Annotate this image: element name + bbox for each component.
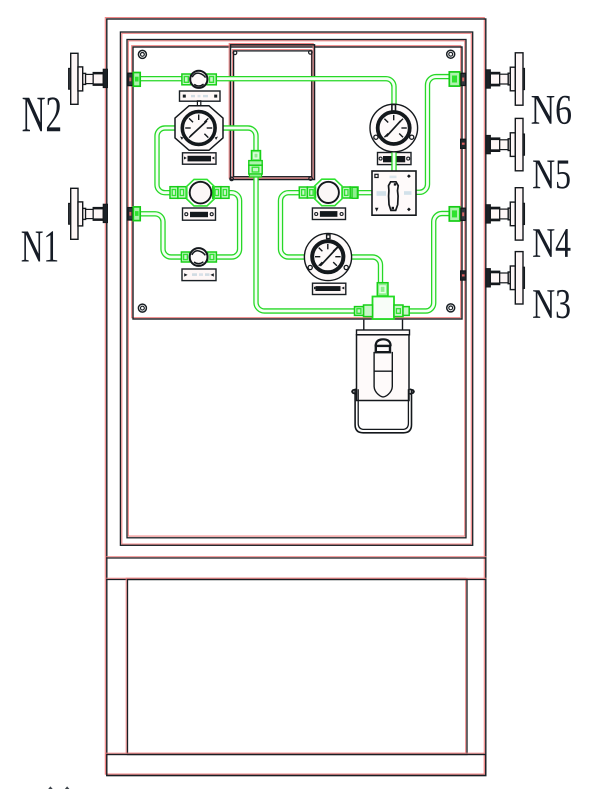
right hook xyxy=(410,389,414,394)
bottom band xyxy=(106,753,486,775)
cut-off text fragment at bottom edge xyxy=(48,786,69,789)
bottom bracket outer xyxy=(355,389,411,433)
label N3 xyxy=(533,290,570,318)
lower section inner rectangle xyxy=(126,578,467,754)
wire tubing switch box S1 to valve V4 xyxy=(356,190,373,195)
fitting pair valve V2 right xyxy=(213,187,229,199)
label plate of gauge G2 (black tag) xyxy=(313,283,346,294)
label plate of valve V4 (black tag) xyxy=(312,208,345,220)
gauge G2 xyxy=(304,233,351,280)
tee T1 body xyxy=(355,297,410,320)
wire tubing nozzle N1 to valve V3 xyxy=(140,214,183,257)
label plate of regulator R1 (black tag) xyxy=(183,153,217,164)
label N5 xyxy=(533,161,570,189)
wire tubing tee T1 to nozzle N4 xyxy=(407,214,452,312)
wall fitting nozzle N6 xyxy=(449,72,465,86)
wall fitting nozzle N1 xyxy=(128,207,140,221)
flange nozzle N4 xyxy=(486,188,525,240)
door inner frame xyxy=(127,40,466,538)
label plate of gauge G1 (black tag) xyxy=(378,153,412,165)
door outer frame xyxy=(120,32,472,545)
fitting union U1 on vertical run xyxy=(249,151,262,177)
gauge G1 xyxy=(370,104,418,152)
panel screw top-right xyxy=(447,50,455,58)
valve V2 (big round valve) xyxy=(187,179,214,206)
fitting valve V1 right xyxy=(207,74,216,85)
wire tubing valve V2 to regulator R1 xyxy=(157,128,180,193)
wall fitting nozzle N2 xyxy=(128,73,140,87)
flange nozzle N1 xyxy=(69,188,108,239)
panel screw top-left xyxy=(138,50,146,58)
wire tubing switch box S1 to nozzle N6 xyxy=(415,77,451,193)
label plate of valve V3 xyxy=(182,269,216,281)
wire tubing gauge G2 to tee T1 xyxy=(350,257,381,286)
document holder big rectangle xyxy=(229,44,314,180)
valve V3 (lower small valve) xyxy=(190,248,208,266)
label N1 xyxy=(22,231,58,261)
wire tubing valve V3 to valve V2 (right U-bend) xyxy=(215,193,240,257)
fitting pair valve V2 left xyxy=(170,187,186,199)
valve V1 (top small valve) xyxy=(190,71,207,88)
panel plate xyxy=(132,46,462,319)
fitting valve V3 right xyxy=(208,252,217,262)
fitting valve V3 left xyxy=(181,252,189,262)
regulator R1 (octagon gauge) xyxy=(175,101,223,151)
sample bottle cap rect xyxy=(376,346,390,352)
fitting pair valve V4 right xyxy=(342,187,358,198)
cylinder neck xyxy=(363,320,365,330)
sample bottle dome cap xyxy=(376,339,391,346)
wire tubing gauge G1 to switch box S1 xyxy=(391,148,396,172)
wire tubing regulator R1 down to tee T1 (long run) xyxy=(218,128,366,311)
fitting valve V1 left xyxy=(182,74,191,85)
panel screw bottom-left xyxy=(138,304,146,312)
flange nozzle N2 xyxy=(69,53,108,104)
big rectangle corner screw top-left xyxy=(233,51,237,55)
wall fitting nozzle N4 xyxy=(449,207,465,221)
flange nozzle N6 xyxy=(486,53,525,105)
left hook xyxy=(352,389,356,394)
fitting above tee T1 xyxy=(377,283,388,296)
label plate of valve V1 xyxy=(180,91,221,101)
switch box S1 (keyhole plate) xyxy=(372,171,416,215)
fitting at switch box S1 left xyxy=(352,187,357,198)
cylinder housing body xyxy=(357,335,410,401)
label N2 xyxy=(23,97,61,131)
wall plug nozzle N3 xyxy=(461,271,466,280)
flange nozzle N5 xyxy=(486,118,525,170)
valve V4 (big round valve right) xyxy=(315,179,342,206)
wall plug nozzle N5 xyxy=(461,139,466,148)
panel screw bottom-right xyxy=(447,304,455,312)
label N4 xyxy=(533,229,570,257)
wire tubing N2 to valve V1 to gauge G1 (top run) xyxy=(140,79,394,112)
middle band line lower xyxy=(107,578,486,579)
sample cylinder assembly below panel xyxy=(351,320,414,433)
big rectangle corner screw top-right xyxy=(309,51,313,55)
cabinet outer frame xyxy=(105,18,486,776)
big rectangle corner screw bottom-left xyxy=(230,177,234,181)
bottom bracket inner xyxy=(358,389,408,429)
wire tubing valve V4 to gauge G2 (left U-bend) xyxy=(281,193,306,257)
middle band line upper xyxy=(107,557,486,558)
fitting pair valve V4 left xyxy=(299,187,315,198)
sample bottle body xyxy=(374,352,392,397)
cylinder top plate xyxy=(357,330,410,335)
flange nozzle N3 xyxy=(486,252,525,304)
label plate of valve V2 (black tag) xyxy=(183,208,216,220)
label N6 xyxy=(532,96,571,124)
big rectangle corner screw bottom-right xyxy=(309,177,313,181)
